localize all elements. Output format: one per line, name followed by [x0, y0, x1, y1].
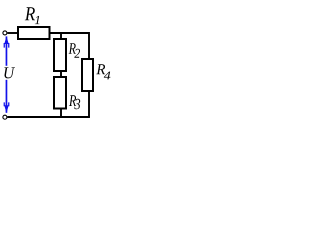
label U: [4, 67, 15, 78]
resistor R3: [54, 77, 66, 109]
voltage arrowhead down: [4, 105, 9, 113]
resistor R2: [54, 39, 66, 71]
voltage arrow U shaft upper: [5, 36, 7, 65]
label R1: [25, 7, 35, 20]
label R4: [96, 64, 105, 74]
wire R2 to R3: [60, 71, 62, 77]
resistor R4: [82, 59, 93, 91]
voltage arrowhead up: [4, 36, 9, 44]
bottom wire: [7, 116, 90, 118]
wire top-left terminal to R1: [7, 32, 18, 34]
node junction middle branch: [60, 33, 62, 39]
label R2: [69, 43, 76, 54]
terminal top-left: [3, 31, 7, 35]
label R3: [69, 95, 76, 106]
voltage arrow U shaft lower: [5, 80, 7, 113]
terminal bottom-left: [3, 115, 7, 119]
wire R4 to bottom-right corner: [88, 91, 90, 117]
wire R1 to top-right corner down to R4: [50, 33, 90, 59]
wire R3 to bottom wire: [60, 109, 62, 118]
resistor R1: [18, 27, 50, 39]
